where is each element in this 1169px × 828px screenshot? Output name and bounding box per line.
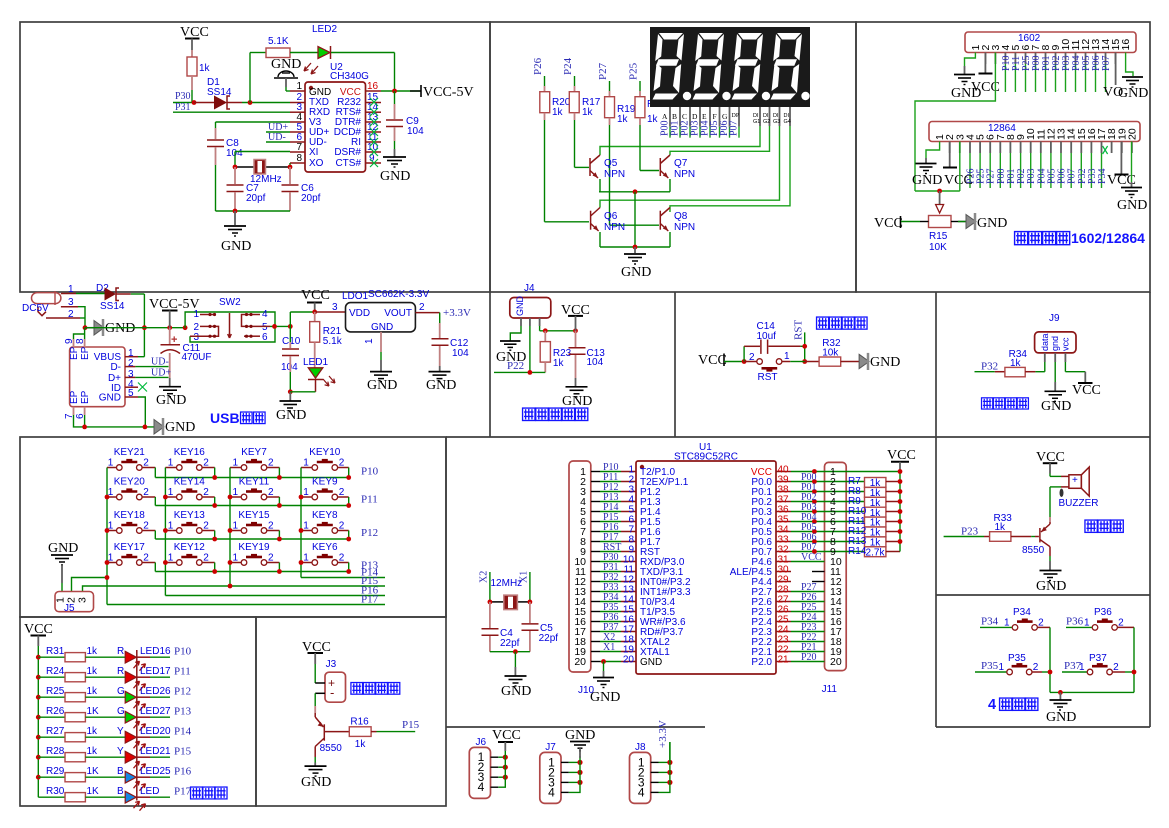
svg-text:GND: GND bbox=[105, 321, 135, 336]
LDO pin1 GND bbox=[364, 332, 397, 393]
capacitor C10 104 bbox=[281, 326, 301, 391]
svg-text:VCC: VCC bbox=[492, 728, 521, 743]
svg-text:P10: P10 bbox=[361, 466, 379, 478]
svg-text:P11: P11 bbox=[174, 666, 191, 678]
svg-text:P22: P22 bbox=[507, 360, 524, 372]
svg-text:G3: G3 bbox=[773, 119, 780, 125]
svg-text:P36: P36 bbox=[1066, 615, 1084, 627]
svg-text:J9: J9 bbox=[1049, 313, 1060, 324]
svg-text:1k: 1k bbox=[647, 114, 659, 125]
svg-text:P23: P23 bbox=[961, 526, 979, 538]
svg-text:R15: R15 bbox=[929, 231, 948, 242]
section border: power row dividers bbox=[490, 292, 1150, 727]
key KEY18 bbox=[107, 510, 155, 539]
svg-text:22pf: 22pf bbox=[539, 633, 559, 644]
svg-text:KEY17: KEY17 bbox=[114, 542, 146, 553]
section border: LCD module box bbox=[856, 22, 1150, 292]
svg-text:P14: P14 bbox=[174, 726, 192, 738]
resistor R31 + LED LED16 row bbox=[36, 646, 192, 671]
wire DIG3 to Q6 collector bbox=[600, 126, 780, 208]
svg-text:GND: GND bbox=[367, 378, 397, 393]
capacitor C5 22pf bbox=[522, 602, 559, 652]
svg-text:B: B bbox=[117, 786, 124, 797]
svg-text:P17: P17 bbox=[361, 594, 379, 606]
svg-text:GND: GND bbox=[48, 541, 78, 556]
ground (IR) bbox=[301, 766, 331, 790]
resistor R16 1k bbox=[324, 717, 419, 751]
key KEY7 bbox=[230, 447, 279, 478]
svg-text:EP: EP bbox=[69, 346, 80, 360]
wire LED cathode bar bbox=[136, 650, 138, 801]
net labels X2/X1 (crystal) bbox=[479, 571, 530, 602]
svg-text:GND: GND bbox=[1117, 198, 1147, 213]
svg-text:GND: GND bbox=[221, 239, 251, 254]
svg-text:R28: R28 bbox=[46, 746, 65, 757]
svg-text:UD+: UD+ bbox=[151, 368, 171, 379]
svg-text:GND: GND bbox=[165, 420, 195, 435]
svg-text:10uf: 10uf bbox=[757, 331, 777, 342]
ground (buzzer) bbox=[1036, 571, 1066, 595]
power VCC (J4) bbox=[561, 303, 590, 331]
potentiometer R15 10K bbox=[929, 191, 952, 253]
svg-text:22pf: 22pf bbox=[500, 638, 520, 649]
svg-text:data: data bbox=[1040, 333, 1050, 351]
svg-text:470UF: 470UF bbox=[182, 352, 212, 363]
svg-text:P34: P34 bbox=[1013, 607, 1031, 618]
svg-text:P34: P34 bbox=[981, 615, 999, 627]
wire J9 data pin bbox=[1044, 362, 1046, 372]
svg-text:P10: P10 bbox=[174, 646, 192, 658]
power VCC (top of R1) bbox=[180, 25, 209, 57]
svg-text:LED2: LED2 bbox=[312, 24, 337, 35]
wire row net P10 bbox=[155, 466, 378, 480]
resistor 5.1K bbox=[266, 36, 318, 58]
svg-text:EP: EP bbox=[69, 390, 80, 404]
key RST button bbox=[744, 351, 805, 383]
resistor R27 + LED LED20 row bbox=[36, 726, 192, 751]
connector J8 bbox=[630, 742, 673, 804]
svg-text:1: 1 bbox=[364, 338, 375, 344]
connector J9 bbox=[1035, 313, 1076, 362]
svg-text:J5: J5 bbox=[64, 603, 75, 614]
wire DIG2 to Q7 collector bbox=[670, 126, 770, 155]
svg-text:20: 20 bbox=[574, 656, 586, 668]
svg-text:8550: 8550 bbox=[320, 743, 343, 754]
svg-text:D: D bbox=[692, 112, 698, 121]
net P22 wire bbox=[494, 360, 545, 375]
svg-text:GND: GND bbox=[380, 169, 410, 184]
svg-text:SC662K-3.3V: SC662K-3.3V bbox=[368, 289, 429, 300]
wire J5 pin3 riser bbox=[83, 584, 233, 592]
wire P37 to bus bbox=[1112, 670, 1136, 675]
U1 pins 40-21 (right) bbox=[776, 465, 791, 666]
svg-text:20pf: 20pf bbox=[246, 193, 266, 204]
svg-text:VCC: VCC bbox=[887, 448, 916, 463]
svg-text:LED1: LED1 bbox=[303, 357, 328, 368]
svg-text:P24: P24 bbox=[562, 57, 574, 75]
capacitor C6 20pf bbox=[282, 167, 321, 211]
svg-text:1k: 1k bbox=[87, 746, 99, 757]
svg-text:1k: 1k bbox=[87, 686, 99, 697]
svg-text:R26: R26 bbox=[46, 706, 65, 717]
ground flag (USB) bbox=[154, 418, 195, 435]
svg-text:21: 21 bbox=[778, 655, 790, 666]
wire V3 to C8 bbox=[216, 122, 291, 128]
key KEY10 bbox=[301, 447, 349, 478]
connector J11 bbox=[825, 462, 847, 670]
svg-text:1: 1 bbox=[193, 309, 199, 320]
key KEY6 bbox=[301, 542, 349, 572]
connector J10 bbox=[569, 461, 591, 672]
power VCC (pull-up bus) bbox=[887, 448, 916, 552]
svg-text:104: 104 bbox=[407, 126, 424, 137]
net label RST (reset node) bbox=[793, 320, 808, 364]
resistor R32 10k bbox=[805, 338, 859, 366]
wire Q6/Q8 emitters bbox=[600, 245, 670, 250]
svg-text:RST: RST bbox=[793, 320, 805, 340]
svg-text:P15: P15 bbox=[174, 746, 192, 758]
wire P34 to bus bbox=[1037, 627, 1050, 692]
svg-text:LED26: LED26 bbox=[140, 686, 171, 697]
resistor R33 1k bbox=[944, 513, 1039, 541]
svg-text:3: 3 bbox=[193, 332, 199, 343]
USB pin4 ID no-connect bbox=[125, 383, 147, 392]
svg-text:P15: P15 bbox=[402, 719, 420, 731]
svg-text:GND: GND bbox=[870, 355, 900, 370]
resistor R19 1k bbox=[605, 97, 659, 226]
net label P30 bbox=[173, 91, 195, 103]
svg-text:LED: LED bbox=[140, 786, 159, 797]
wire DIG1 to Q5 collector bbox=[600, 126, 760, 155]
svg-text:P26: P26 bbox=[532, 57, 544, 75]
svg-text:DP: DP bbox=[732, 113, 740, 119]
port GND (R15 right) bbox=[951, 213, 1007, 231]
svg-text:Q7: Q7 bbox=[674, 158, 688, 169]
svg-text:LED25: LED25 bbox=[140, 766, 171, 777]
svg-text:KEY7: KEY7 bbox=[241, 447, 267, 458]
USB pin5 GND wire bbox=[125, 397, 145, 427]
svg-text:P27: P27 bbox=[597, 62, 609, 80]
net label P25 bbox=[628, 62, 641, 96]
svg-text:EP: EP bbox=[80, 346, 91, 360]
connector J6 bbox=[469, 737, 508, 799]
wire 1602 pin3 to R15 bbox=[915, 53, 995, 192]
svg-text:1k: 1k bbox=[199, 63, 211, 74]
svg-text:J4: J4 bbox=[524, 283, 535, 294]
port VCC (reset) bbox=[698, 353, 744, 368]
svg-text:1k: 1k bbox=[355, 739, 367, 750]
ground 12864 pin1 bbox=[912, 142, 942, 189]
svg-text:VCC: VCC bbox=[801, 552, 822, 563]
svg-text:GND: GND bbox=[1041, 399, 1071, 414]
svg-text:104: 104 bbox=[452, 348, 469, 359]
ground (dome) under 5.1K bbox=[271, 57, 301, 91]
section border: MCU box bbox=[446, 437, 936, 727]
ground 1602 pin1 bbox=[951, 53, 981, 102]
svg-text:1k: 1k bbox=[87, 646, 99, 657]
label 红外发送 bbox=[351, 683, 400, 695]
transistor 8550 (IR) bbox=[315, 713, 342, 766]
resistor R18 1k bbox=[635, 97, 659, 171]
svg-text:P25: P25 bbox=[628, 62, 640, 80]
svg-text:KEY16: KEY16 bbox=[174, 447, 206, 458]
ground (J4 pin1) bbox=[496, 326, 526, 365]
crystal 12MHz bbox=[233, 160, 293, 186]
svg-text:1k: 1k bbox=[553, 358, 565, 369]
svg-text:1602: 1602 bbox=[1018, 33, 1041, 44]
svg-text:1k: 1k bbox=[87, 726, 99, 737]
capacitor C14 10uf bbox=[742, 321, 805, 364]
svg-text:12MHz: 12MHz bbox=[491, 578, 523, 589]
svg-text:1k: 1k bbox=[87, 666, 99, 677]
wire D2 to VBUS / 5V rail bbox=[142, 294, 147, 357]
key KEY19 bbox=[230, 542, 279, 572]
wire 5V rail bbox=[85, 325, 188, 330]
svg-text:Q8: Q8 bbox=[674, 211, 688, 222]
ground 12864 pin20 bbox=[1117, 142, 1147, 214]
power VCC (J6) bbox=[492, 728, 521, 751]
svg-text:P11: P11 bbox=[361, 494, 378, 506]
capacitor C4 22pf bbox=[482, 602, 520, 652]
wire row net P11 bbox=[155, 494, 377, 508]
svg-text:GND: GND bbox=[640, 657, 662, 668]
key KEY8 bbox=[301, 510, 349, 539]
svg-text:GND: GND bbox=[977, 216, 1007, 231]
svg-text:1K: 1K bbox=[87, 766, 100, 777]
svg-text:7: 7 bbox=[296, 142, 302, 153]
svg-text:GND: GND bbox=[99, 393, 121, 404]
connector J5 bbox=[55, 592, 94, 615]
key KEY20 bbox=[107, 477, 155, 506]
svg-text:P12: P12 bbox=[361, 527, 378, 539]
svg-text:GND: GND bbox=[1118, 86, 1148, 101]
node R15 wiper bbox=[915, 189, 960, 194]
connector J4 bbox=[510, 283, 551, 326]
svg-text:VCC: VCC bbox=[698, 353, 727, 368]
svg-text:KEY12: KEY12 bbox=[174, 542, 206, 553]
svg-text:12864: 12864 bbox=[988, 123, 1016, 134]
transistor Q8 NPN bbox=[660, 208, 695, 248]
svg-text:R24: R24 bbox=[46, 666, 65, 677]
wire J4 pin3 / VCC node bbox=[540, 326, 578, 333]
svg-text:LED17: LED17 bbox=[140, 666, 171, 677]
svg-text:G2: G2 bbox=[763, 119, 770, 125]
svg-text:1k: 1k bbox=[582, 107, 594, 118]
svg-text:R31: R31 bbox=[46, 646, 65, 657]
capacitor C9 104 bbox=[386, 91, 424, 157]
net label UD+ (pin5) bbox=[266, 122, 290, 133]
svg-text:P32: P32 bbox=[981, 361, 998, 373]
svg-text:P16: P16 bbox=[174, 766, 192, 778]
wire crystal ground bbox=[490, 649, 530, 675]
svg-text:NPN: NPN bbox=[674, 222, 695, 233]
ground under Q6/Q8 bbox=[621, 247, 651, 280]
svg-text:R14: R14 bbox=[848, 546, 867, 557]
wire J5 pin2 riser bbox=[72, 575, 110, 591]
svg-text:104: 104 bbox=[587, 357, 604, 368]
svg-text:GND: GND bbox=[276, 408, 306, 423]
wire J4 pin2 to P22 bbox=[529, 326, 531, 372]
svg-text:1k: 1k bbox=[617, 114, 629, 125]
svg-text:P17: P17 bbox=[174, 786, 192, 798]
svg-text:VCC: VCC bbox=[1072, 383, 1101, 398]
U2 pins 1-8 (left stubs) bbox=[290, 81, 305, 164]
label 显示模块1602/12864 bbox=[1015, 230, 1146, 246]
svg-text:GND: GND bbox=[1036, 579, 1066, 594]
svg-text:NPN: NPN bbox=[604, 222, 625, 233]
connector 1602 pin stubs bbox=[985, 53, 1115, 93]
svg-text:F: F bbox=[713, 112, 717, 121]
key P35 bbox=[975, 653, 1039, 675]
svg-text:4: 4 bbox=[478, 780, 485, 794]
resistor R29 + LED LED25 row bbox=[36, 766, 192, 791]
LDO pin2 VOUT / +3.3V bbox=[415, 302, 471, 323]
svg-text:KEY14: KEY14 bbox=[174, 477, 206, 488]
wires J10 to U1 (nets P10-P17,RST,P30-P37,X2,X1) bbox=[591, 462, 621, 662]
connector J3 bbox=[315, 659, 345, 702]
wire VCC node to LDO pin3 bbox=[315, 302, 346, 313]
svg-text:P30: P30 bbox=[175, 91, 191, 102]
ground (J9 gnd pin) bbox=[1041, 362, 1071, 414]
resistor R26 + LED LED27 row bbox=[36, 706, 192, 731]
U1 pins 1-20 (left) bbox=[621, 465, 636, 666]
svg-text:GND: GND bbox=[156, 393, 186, 408]
regulator LDO1 SC662K-3.3V bbox=[342, 289, 429, 333]
power VCC (buzzer) bbox=[1036, 450, 1065, 476]
svg-text:LED20: LED20 bbox=[140, 726, 171, 737]
svg-text:KEY13: KEY13 bbox=[174, 510, 206, 521]
svg-text:XO: XO bbox=[309, 158, 324, 169]
svg-text:Q5: Q5 bbox=[604, 158, 618, 169]
label 复位电路 bbox=[817, 317, 868, 329]
svg-text:GND: GND bbox=[501, 684, 531, 699]
ground flag (reset) bbox=[859, 353, 900, 370]
key KEY16 bbox=[165, 447, 214, 478]
transistor Q6 NPN bbox=[591, 208, 626, 248]
resistor R18 label bbox=[647, 99, 666, 110]
power VCC (IR) bbox=[302, 640, 331, 683]
section border: key matrix box bbox=[20, 437, 446, 617]
net +3.3V (J8) bbox=[657, 720, 670, 762]
svg-text:8550: 8550 bbox=[1022, 545, 1045, 556]
svg-text:GND: GND bbox=[515, 296, 525, 317]
net label P27 bbox=[597, 62, 610, 96]
svg-text:R25: R25 bbox=[46, 686, 65, 697]
net labels 1602 data pins bbox=[1001, 55, 1112, 71]
wire key matrix columns bbox=[105, 468, 304, 605]
wire P35 to bus bbox=[1032, 670, 1052, 675]
power VCC 12864 pin2 bbox=[943, 142, 973, 189]
key KEY11 bbox=[230, 477, 279, 506]
connector DC5V barrel jack bbox=[22, 284, 74, 320]
svg-text:P20: P20 bbox=[801, 652, 817, 663]
svg-text:KEY11: KEY11 bbox=[239, 477, 270, 488]
USB EP top pins bbox=[74, 328, 85, 347]
transistor Q7 NPN bbox=[660, 155, 695, 192]
svg-text:1: 1 bbox=[784, 351, 790, 362]
svg-text:G4: G4 bbox=[784, 119, 791, 125]
svg-text:KEY10: KEY10 bbox=[309, 447, 341, 458]
svg-text:P35: P35 bbox=[981, 660, 999, 672]
svg-text:+3.3V: +3.3V bbox=[657, 720, 669, 748]
wire ground bus under crystal bbox=[216, 209, 291, 214]
svg-text:4: 4 bbox=[988, 697, 996, 713]
svg-text:KEY20: KEY20 bbox=[114, 477, 146, 488]
diode D1 SS14 bbox=[194, 77, 290, 110]
key KEY13 bbox=[165, 510, 214, 539]
resistor 1k (VCC pullup) bbox=[187, 57, 211, 103]
no-connect 12864 pin18 bbox=[1103, 146, 1108, 154]
svg-text:VCC: VCC bbox=[944, 173, 973, 188]
svg-text:3: 3 bbox=[332, 302, 338, 313]
port VCC-5V bbox=[410, 85, 474, 100]
resistor R28 + LED LED21 row bbox=[36, 746, 192, 771]
net label P26 bbox=[532, 57, 545, 91]
wire key ground bus bbox=[1050, 690, 1134, 695]
power VCC (LDO input) bbox=[301, 288, 330, 314]
svg-text:R27: R27 bbox=[46, 726, 65, 737]
svg-text:KEY8: KEY8 bbox=[312, 510, 338, 521]
svg-text:VCC-5V: VCC-5V bbox=[423, 85, 474, 100]
label 流水灯 bbox=[191, 787, 227, 799]
svg-text:1602/12864: 1602/12864 bbox=[1071, 230, 1145, 246]
svg-text:NPN: NPN bbox=[674, 169, 695, 180]
capacitor C8 104 bbox=[207, 128, 243, 211]
section border: LED box bbox=[20, 617, 256, 806]
wire row net P12 bbox=[155, 527, 378, 541]
svg-text:5.1K: 5.1K bbox=[268, 36, 289, 47]
net labels 12864 data pins bbox=[966, 168, 1109, 184]
section border: IR transmit box bbox=[256, 617, 446, 806]
svg-text:vcc: vcc bbox=[1060, 337, 1070, 351]
svg-text:J7: J7 bbox=[545, 742, 556, 753]
svg-text:1k: 1k bbox=[552, 107, 564, 118]
svg-text:E: E bbox=[702, 112, 707, 121]
svg-text:16: 16 bbox=[1120, 39, 1132, 51]
svg-text:GND: GND bbox=[271, 57, 301, 72]
resistor network R7-R14 pull-ups bbox=[848, 476, 900, 558]
svg-text:UD-: UD- bbox=[151, 357, 169, 368]
svg-text:GND: GND bbox=[301, 775, 331, 790]
svg-text:NPN: NPN bbox=[604, 169, 625, 180]
svg-text:KEY6: KEY6 bbox=[312, 542, 338, 553]
resistor R21 5.1k bbox=[310, 312, 343, 368]
resistor R17 1k bbox=[569, 92, 600, 168]
svg-text:4: 4 bbox=[548, 785, 555, 799]
transistor 8550 (buzzer) bbox=[1022, 522, 1050, 570]
svg-text:KEY19: KEY19 bbox=[238, 542, 270, 553]
power VCC (LED rail) bbox=[24, 622, 53, 797]
svg-text:1: 1 bbox=[296, 81, 302, 92]
label 4位按键 bbox=[988, 697, 1038, 713]
resistor R34 1k bbox=[975, 349, 1045, 377]
resistor R20 1k bbox=[540, 92, 589, 222]
key P37 bbox=[1062, 653, 1119, 675]
display digit pins DIG1-DIG4 bbox=[753, 107, 791, 126]
resistor R23 1k bbox=[540, 331, 571, 373]
ground under C10 bbox=[276, 389, 306, 423]
svg-text:BUZZER: BUZZER bbox=[1059, 498, 1099, 509]
svg-text:P36: P36 bbox=[1094, 607, 1112, 618]
net label UD- (pin6) bbox=[266, 132, 290, 143]
svg-text:EP: EP bbox=[80, 390, 91, 404]
wire SW2 pin5 to C10 node bbox=[270, 312, 315, 329]
svg-text:LED21: LED21 bbox=[140, 746, 171, 757]
svg-text:gnd: gnd bbox=[1050, 336, 1060, 351]
net label P31 bbox=[173, 102, 290, 113]
svg-text:GND: GND bbox=[562, 394, 592, 409]
svg-text:KEY15: KEY15 bbox=[238, 510, 270, 521]
